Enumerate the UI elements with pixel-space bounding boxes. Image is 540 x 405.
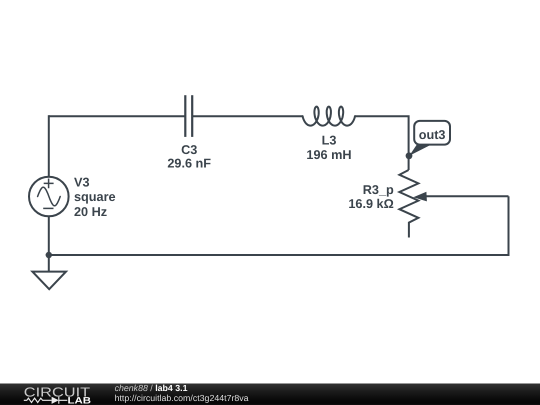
voltage source V3 xyxy=(29,177,69,217)
label R3_p 16.9 kOhm xyxy=(348,183,394,211)
svg-text:out3: out3 xyxy=(419,128,446,142)
label V3 square 20 Hz xyxy=(74,175,116,219)
junction dot xyxy=(46,252,52,258)
wire wiper to right rail xyxy=(426,195,508,197)
svg-text:R3_p: R3_p xyxy=(363,183,394,197)
logo resistor-diode line xyxy=(24,397,68,404)
svg-text:V3: V3 xyxy=(74,175,90,189)
svg-text:http://circuitlab.com/ct3g244t: http://circuitlab.com/ct3g244t7r8va xyxy=(115,393,249,403)
potentiometer R3_p xyxy=(399,170,418,238)
label L3 196 mH xyxy=(306,134,351,162)
wire bottom rail xyxy=(49,254,509,256)
svg-text:square: square xyxy=(74,190,116,204)
ground xyxy=(32,255,66,289)
svg-text:LAB: LAB xyxy=(68,395,92,405)
inductor L3 xyxy=(303,107,355,126)
logo diode triangle xyxy=(52,397,59,404)
label C3 29.6 nF xyxy=(167,143,211,171)
node out3 flag xyxy=(409,121,450,156)
svg-text:20 Hz: 20 Hz xyxy=(74,205,107,219)
svg-text:16.9 kΩ: 16.9 kΩ xyxy=(348,197,393,211)
wire top rail left segment xyxy=(49,115,186,117)
svg-text:L3: L3 xyxy=(322,134,337,148)
wire left vertical to source xyxy=(48,115,50,177)
potentiometer wiper arrow xyxy=(413,192,427,202)
node dot at out3 xyxy=(406,152,413,159)
wire source bottom to junction xyxy=(48,216,50,255)
wire top rail right segment xyxy=(355,116,408,170)
svg-text:chenk88 / lab4 3.1: chenk88 / lab4 3.1 xyxy=(115,383,188,393)
wire top rail middle segment xyxy=(192,115,302,117)
capacitor C3 xyxy=(185,95,192,137)
svg-text:196 mH: 196 mH xyxy=(306,148,351,162)
svg-text:C3: C3 xyxy=(181,143,197,157)
svg-text:29.6 nF: 29.6 nF xyxy=(167,157,211,171)
wire right rail xyxy=(508,196,510,256)
